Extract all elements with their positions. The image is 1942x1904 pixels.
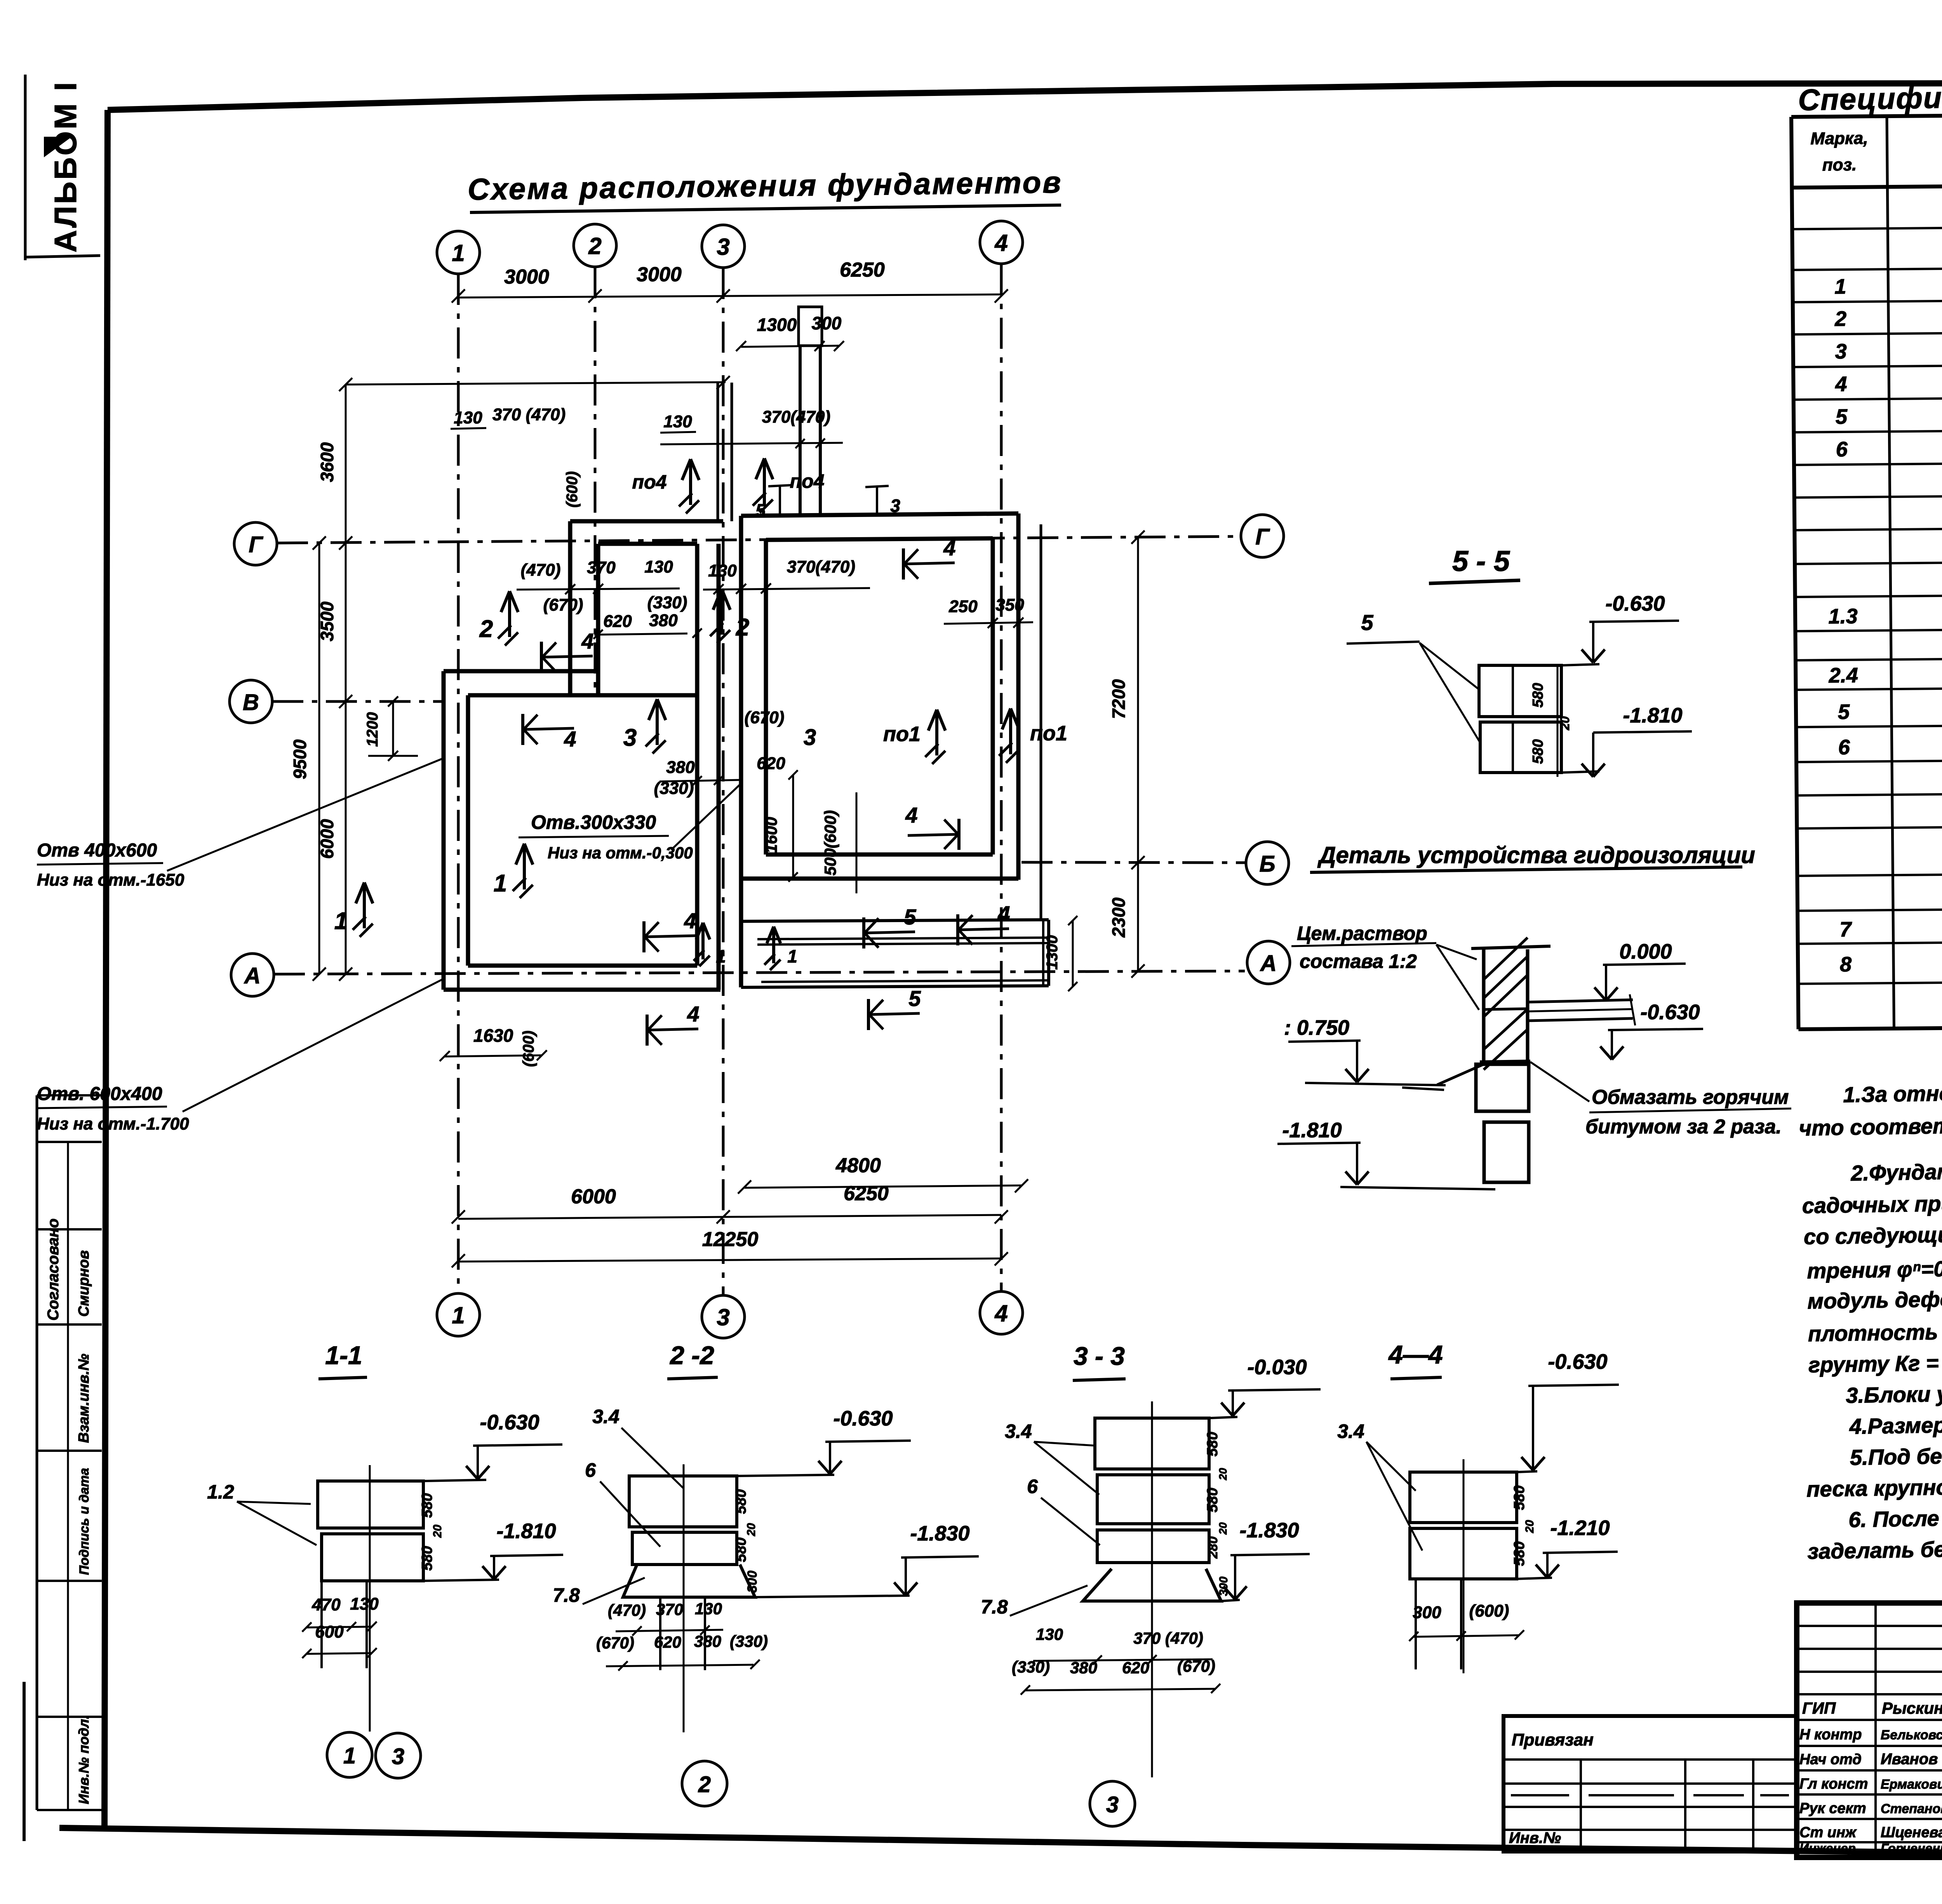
wall upper-left room top outer	[570, 519, 723, 524]
svg-text:В: В	[243, 690, 259, 715]
svg-text:130: 130	[350, 1594, 379, 1613]
section mark К4 below bottom wall	[646, 1015, 649, 1046]
svg-text:6: 6	[1836, 438, 1848, 461]
svg-text:6000: 6000	[571, 1185, 616, 1208]
section 3-3 level extension lines	[1209, 1417, 1237, 1418]
detail wall right edge	[1526, 949, 1530, 1061]
svg-text:5: 5	[1836, 405, 1848, 428]
dim line upper rooms left	[517, 588, 680, 590]
section 2-2 axis circle 2	[682, 1761, 727, 1806]
svg-text:битумом за 2 раза.: битумом за 2 раза.	[1585, 1116, 1782, 1138]
dimension line 3000 3000 6250	[458, 294, 1001, 298]
detail wall bottom joint	[1480, 1061, 1530, 1062]
album margin line vertical	[24, 75, 27, 260]
axis line 2 vertical	[594, 267, 597, 697]
svg-text:-0.630: -0.630	[1548, 1350, 1607, 1373]
section 1-1 axis circles 1 3	[369, 1669, 371, 1732]
svg-text:130: 130	[695, 1599, 722, 1618]
svg-text:2: 2	[698, 1772, 711, 1797]
album margin line horizontal	[25, 256, 100, 257]
detail footing bottom line	[1340, 1187, 1495, 1189]
svg-text:2.4: 2.4	[1829, 664, 1858, 687]
svg-text:600: 600	[315, 1622, 344, 1641]
axis circle В left	[230, 680, 272, 723]
svg-text:Рыскин: Рыскин	[1882, 1699, 1942, 1717]
wall stub above axis3 right line	[731, 383, 733, 521]
axis circle Г left	[234, 522, 277, 565]
leader обмазать to wall	[1530, 1062, 1589, 1102]
svg-text:4—4: 4—4	[1388, 1340, 1443, 1369]
dimension 1200 vertical	[392, 701, 394, 756]
dimension 4800	[745, 1185, 1021, 1188]
spec table grid	[1791, 117, 1798, 1029]
svg-text:А: А	[244, 963, 261, 989]
svg-text:поз.: поз.	[1822, 155, 1857, 175]
wall upper-right room bottom inner	[766, 853, 993, 857]
dim line under top labels	[660, 443, 843, 444]
svg-text:грунту Кг = 1.: грунту Кг = 1.	[1808, 1350, 1942, 1377]
axis circle Г right	[1241, 515, 1284, 557]
svg-text:300: 300	[745, 1571, 760, 1593]
svg-text:Схема расположения фундаментов: Схема расположения фундаментов	[468, 165, 1063, 207]
svg-text:1200: 1200	[364, 712, 381, 747]
chimney wall left	[799, 346, 802, 516]
svg-text:130: 130	[454, 408, 482, 427]
heading underline	[470, 205, 1061, 212]
svg-text:4: 4	[564, 727, 576, 751]
dimension 12250	[458, 1258, 1001, 1262]
svg-text:Привязан: Привязан	[1512, 1730, 1594, 1749]
wall upper-left room left outer	[568, 521, 573, 697]
section mark К5 appendix lower	[867, 999, 870, 1030]
section mark К4 upper-left	[540, 642, 543, 673]
section 3-3 block 2	[1097, 1475, 1209, 1524]
svg-text:5: 5	[904, 905, 916, 929]
dimension 1600 rotated	[792, 775, 794, 877]
dim line mid	[660, 780, 740, 781]
svg-text:3.4: 3.4	[592, 1406, 619, 1427]
svg-text:3.4: 3.4	[1005, 1420, 1032, 1442]
svg-text:Нач отд: Нач отд	[1799, 1751, 1862, 1768]
chimney cap	[799, 307, 822, 346]
svg-text:350: 350	[995, 595, 1024, 614]
section 2-2 block upper	[629, 1476, 737, 1527]
svg-text:1300: 1300	[757, 315, 797, 335]
dimension 1300 rotated appendix	[1072, 921, 1074, 987]
svg-text:по1: по1	[1030, 722, 1067, 745]
svg-text:7.8: 7.8	[553, 1584, 580, 1606]
svg-text:Обмазать горячим: Обмазать горячим	[1592, 1086, 1789, 1109]
svg-text:Согласовано: Согласовано	[45, 1218, 62, 1321]
section tick 3 top	[865, 486, 889, 487]
corner fold triangle	[44, 137, 72, 157]
svg-text:Степанова: Степанова	[1881, 1801, 1942, 1816]
section 4-4 centerline	[1463, 1459, 1465, 1673]
section 5-5 dim line right	[1557, 665, 1559, 777]
svg-text:130: 130	[644, 557, 673, 576]
wall lower-left room bottom inner	[468, 964, 697, 968]
axis circle 4 top	[980, 221, 1023, 264]
axis line А horizontal	[274, 971, 1245, 974]
wall appendix bottom inner	[761, 980, 1049, 982]
svg-text:-1.830: -1.830	[1239, 1519, 1299, 1542]
svg-text:130: 130	[663, 412, 692, 431]
svg-text:7200: 7200	[1108, 679, 1129, 719]
svg-text:300: 300	[1413, 1603, 1441, 1622]
svg-text:Ст инж: Ст инж	[1799, 1824, 1857, 1841]
appendix mark 1 arrow	[772, 927, 775, 963]
svg-text:2: 2	[479, 616, 493, 642]
dimension 1630	[445, 1055, 542, 1056]
svg-text:3 - 3: 3 - 3	[1074, 1342, 1125, 1370]
svg-text:-1.810: -1.810	[1282, 1119, 1342, 1142]
svg-text:3000: 3000	[504, 266, 549, 288]
svg-text:6250: 6250	[840, 259, 885, 281]
svg-text:(600): (600)	[520, 1030, 537, 1067]
svg-text:(330): (330)	[730, 1632, 768, 1650]
svg-text:АЛЬБОМ I: АЛЬБОМ I	[48, 80, 83, 252]
section 3-3 block 1	[1095, 1418, 1209, 1469]
mini table columns	[1580, 1760, 1582, 1852]
svg-text:1: 1	[787, 946, 797, 966]
svg-text:620: 620	[757, 754, 785, 773]
svg-text:130: 130	[1036, 1625, 1063, 1643]
axis circle 4 bottom	[980, 1291, 1023, 1334]
section 1-1 lower wall lines	[320, 1581, 323, 1668]
dimension 2300 vertical right	[1137, 863, 1139, 971]
section 2-2 level extension lines	[737, 1475, 834, 1476]
svg-text:3: 3	[890, 496, 900, 516]
left stamp column boxes	[36, 1095, 38, 1810]
svg-text:580: 580	[1511, 1541, 1528, 1566]
svg-text:Н контр: Н контр	[1799, 1726, 1862, 1743]
svg-text:1: 1	[1834, 275, 1846, 298]
axis circle А right	[1247, 941, 1290, 984]
svg-text:(470): (470)	[608, 1601, 646, 1619]
notes paragraph	[1798, 1070, 1942, 1564]
svg-text:380: 380	[666, 758, 695, 777]
svg-text:12250: 12250	[702, 1228, 759, 1251]
wall lower-left room top inner	[468, 693, 697, 698]
svg-text:Инв.№: Инв.№	[1509, 1829, 1561, 1847]
svg-text:2300: 2300	[1108, 897, 1129, 938]
title block signature rows	[1797, 1693, 1942, 1695]
svg-text:20: 20	[1217, 1522, 1229, 1535]
section mark К4 bottom-left with arrow 1	[642, 921, 646, 952]
svg-text:5: 5	[755, 500, 766, 520]
svg-text:250: 250	[948, 597, 978, 616]
svg-text:20: 20	[745, 1523, 758, 1537]
svg-text:ГИП: ГИП	[1802, 1699, 1836, 1717]
wall axis3 inner line	[695, 544, 700, 966]
svg-text:370(470): 370(470)	[762, 407, 830, 426]
svg-text:6: 6	[1027, 1476, 1038, 1497]
wall upper-right room top inner	[766, 538, 993, 540]
specification table	[1791, 110, 1942, 1029]
wall lower-left room top outer	[444, 669, 598, 674]
svg-text:3500: 3500	[317, 601, 337, 641]
section mark К4 right room top	[902, 548, 905, 580]
svg-text:3: 3	[804, 725, 816, 750]
section 5-5 block joints	[1512, 665, 1514, 717]
svg-text:580: 580	[1204, 1432, 1221, 1456]
dim line upper rooms right	[703, 588, 870, 590]
svg-text:300: 300	[1217, 1577, 1230, 1596]
axis circle 1 bottom	[437, 1293, 480, 1336]
svg-text:2: 2	[1834, 307, 1847, 331]
detail foundation block 1	[1476, 1064, 1529, 1111]
svg-text:-1.210: -1.210	[1550, 1516, 1610, 1540]
svg-text:-0.630: -0.630	[480, 1411, 539, 1434]
svg-text:1-1: 1-1	[325, 1341, 362, 1370]
svg-text:370: 370	[587, 558, 616, 577]
svg-text:Взам.инв.№: Взам.инв.№	[76, 1354, 92, 1443]
wall axis3 outer line	[717, 544, 721, 990]
section 1-1 block upper	[318, 1481, 423, 1528]
svg-text:Марка,: Марка,	[1810, 129, 1868, 148]
wall upper-right room left inner	[764, 540, 768, 855]
title block outer box	[1797, 1603, 1942, 1857]
svg-text:3600: 3600	[317, 442, 337, 482]
svg-text:4: 4	[994, 230, 1008, 256]
svg-text:20: 20	[1217, 1468, 1229, 1481]
svg-text:Бельковская: Бельковская	[1881, 1728, 1942, 1742]
svg-text:620: 620	[654, 1633, 681, 1651]
svg-text:4: 4	[687, 1002, 699, 1026]
svg-text:580: 580	[733, 1537, 749, 1562]
svg-text:3000: 3000	[637, 263, 682, 286]
title block columns left part	[1874, 1603, 1877, 1857]
svg-text:-1.830: -1.830	[910, 1522, 969, 1545]
svg-text:1630: 1630	[473, 1025, 513, 1046]
svg-text:3: 3	[717, 1304, 729, 1330]
axis circle А left	[231, 954, 274, 996]
svg-text:4: 4	[943, 536, 955, 560]
svg-text:Подпись и дата: Подпись и дата	[77, 1468, 92, 1575]
wall appendix strip line 1	[757, 938, 1049, 939]
svg-text:8: 8	[1840, 953, 1852, 976]
svg-text:1.2: 1.2	[207, 1481, 234, 1503]
dimension 6000 vertical	[345, 701, 347, 974]
svg-text:370 (470): 370 (470)	[1133, 1629, 1203, 1647]
section 2-2 lower wall lines	[659, 1597, 661, 1670]
section 3-3 block 3	[1097, 1530, 1209, 1563]
axis circle Б right	[1246, 842, 1289, 884]
wall upper-right room right inner	[991, 538, 995, 855]
leader цем раствор to wall	[1436, 945, 1477, 959]
svg-text:380: 380	[1070, 1659, 1097, 1677]
svg-text:Рук сект: Рук сект	[1799, 1800, 1866, 1817]
section 4-4 level extension lines	[1517, 1471, 1537, 1472]
svg-text:4: 4	[994, 1300, 1008, 1326]
svg-text:(670): (670)	[1177, 1657, 1215, 1675]
svg-text:Г: Г	[249, 532, 263, 557]
svg-text:1: 1	[716, 946, 726, 966]
axis circle 2 top	[574, 224, 616, 267]
svg-text:6: 6	[1838, 736, 1850, 759]
axis line Г horizontal	[277, 536, 1241, 543]
wall upper-right room bottom outer	[741, 877, 1018, 881]
svg-text:4: 4	[684, 908, 696, 933]
section 3-3 centerline	[1151, 1401, 1153, 1777]
wall appendix strip line 2	[757, 943, 1049, 945]
svg-text:500(600): 500(600)	[821, 810, 839, 875]
section 4-4 block lower	[1410, 1528, 1517, 1579]
svg-text:Низ на отм.-1650: Низ на отм.-1650	[37, 870, 184, 889]
svg-text:(600): (600)	[1469, 1601, 1509, 1620]
svg-text:580: 580	[1204, 1488, 1221, 1512]
svg-text:1300: 1300	[1044, 935, 1061, 970]
wall lower-left room left inner	[466, 695, 470, 966]
svg-text:1600: 1600	[762, 817, 780, 853]
section 1-1 block lower	[322, 1534, 423, 1581]
svg-text:по1: по1	[883, 722, 921, 746]
svg-text:620: 620	[603, 612, 632, 631]
svg-text:1.3: 1.3	[1828, 605, 1858, 628]
mini table box	[1503, 1716, 1797, 1852]
svg-text:580: 580	[1511, 1485, 1528, 1510]
dim line 620 380	[594, 634, 687, 635]
svg-text:Инженер: Инженер	[1799, 1841, 1856, 1855]
svg-text:Горчененко: Горчененко	[1881, 1841, 1942, 1855]
svg-text:3: 3	[1835, 340, 1847, 363]
dimension 3600 vertical	[345, 385, 347, 543]
svg-text:Б: Б	[1259, 851, 1275, 877]
left stamp artifact line	[23, 1682, 26, 1841]
svg-text:Гл конст: Гл конст	[1799, 1776, 1868, 1792]
label по4 right with arrow	[763, 458, 766, 504]
svg-text:1: 1	[334, 908, 348, 935]
wall stub above axis3 left line	[717, 383, 719, 521]
axis line Б horizontal	[1021, 862, 1246, 863]
axis circle 3 bottom	[702, 1295, 745, 1338]
svg-text:-1.810: -1.810	[496, 1519, 556, 1543]
svg-text:370(470): 370(470)	[787, 557, 855, 576]
section mark К5 appendix	[862, 917, 865, 949]
wall appendix bottom outer	[741, 986, 1049, 987]
svg-text:20: 20	[1558, 716, 1572, 731]
section 4-4 block upper	[1410, 1472, 1517, 1523]
section 3-3 axis circle 3	[1090, 1781, 1135, 1826]
svg-text:370 (470): 370 (470)	[492, 405, 566, 424]
svg-text:Низ на отм.-0,300: Низ на отм.-0,300	[548, 844, 693, 862]
detail wall left edge	[1482, 949, 1486, 1061]
section mark К4 right room bottom	[957, 819, 961, 850]
svg-text:4: 4	[997, 902, 1010, 926]
section 2-2 block lower	[632, 1532, 737, 1565]
svg-text:4: 4	[581, 629, 593, 653]
svg-text:20: 20	[1523, 1520, 1536, 1533]
svg-text:состава 1:2: состава 1:2	[1300, 950, 1417, 972]
section 5-5 level extension lines	[1561, 664, 1599, 665]
svg-text:4800: 4800	[835, 1154, 881, 1177]
svg-text:620: 620	[1122, 1659, 1149, 1677]
wall upper-right room left outer	[739, 516, 743, 987]
detail wall top cap line	[1471, 946, 1550, 949]
svg-text:(670): (670)	[543, 595, 583, 614]
wall appendix right inner	[1042, 920, 1044, 986]
svg-text:по4: по4	[790, 470, 825, 492]
section 3-3 footing plate trapezoid	[1083, 1569, 1221, 1601]
svg-text:300: 300	[812, 313, 842, 333]
label 2 with arrow right	[720, 589, 723, 635]
svg-text:Отв. 600х400: Отв. 600х400	[37, 1084, 162, 1104]
svg-text:-0.030: -0.030	[1247, 1356, 1307, 1379]
svg-text:Иванов: Иванов	[1881, 1751, 1938, 1768]
svg-text:Смирнов: Смирнов	[76, 1250, 92, 1317]
svg-text:5: 5	[908, 986, 921, 1011]
section tick 5 top	[768, 485, 792, 486]
mini table dashes	[1511, 1794, 1569, 1796]
svg-text:Отв 400х600: Отв 400х600	[37, 840, 157, 861]
detail wall hatch joint	[1484, 1009, 1528, 1009]
svg-text:(600): (600)	[564, 471, 581, 507]
detail wall hatching upper block	[1484, 938, 1528, 980]
leader to opening	[671, 785, 740, 850]
wall appendix right outer	[1047, 920, 1050, 986]
wall appendix top	[741, 920, 1049, 921]
svg-text:Отв.300х330: Отв.300х330	[531, 811, 656, 833]
section 2-2 centerline	[683, 1464, 685, 1732]
sheet border frame	[108, 82, 1942, 110]
svg-text:-0.630: -0.630	[1640, 1001, 1700, 1024]
wall upper-left room left inner	[596, 544, 600, 697]
svg-text:(670): (670)	[596, 1634, 634, 1652]
svg-text:130: 130	[708, 561, 737, 580]
svg-text:(670): (670)	[745, 708, 785, 727]
svg-text:7.8: 7.8	[981, 1596, 1008, 1618]
svg-text:580: 580	[733, 1489, 749, 1514]
svg-text:1: 1	[343, 1743, 356, 1768]
svg-text:380: 380	[694, 1632, 721, 1650]
section 1-1 level extension lines	[423, 1480, 486, 1481]
detail blind-area slope	[1437, 1064, 1484, 1085]
svg-text:(330): (330)	[1012, 1658, 1050, 1676]
svg-text:20: 20	[431, 1525, 444, 1538]
spec table title	[1798, 69, 1942, 117]
dimension 500(600) rotated	[856, 792, 858, 893]
dimension line 1300 300	[741, 346, 839, 347]
svg-text:3: 3	[392, 1744, 404, 1769]
svg-text:4: 4	[1835, 372, 1847, 396]
leader 400x600	[167, 758, 444, 871]
svg-text:6250: 6250	[844, 1182, 889, 1205]
svg-text:1: 1	[494, 870, 507, 897]
svg-text:580: 580	[1530, 683, 1546, 707]
svg-text:0.000: 0.000	[1619, 940, 1672, 963]
svg-text:А: А	[1260, 951, 1277, 976]
svg-text:-1.810: -1.810	[1623, 704, 1682, 727]
svg-text:3: 3	[717, 234, 729, 260]
svg-text:Инв.№ подл.: Инв.№ подл.	[76, 1715, 92, 1804]
wall lower-left room left outer	[442, 671, 446, 990]
detail foundation block 2	[1484, 1122, 1529, 1182]
svg-text:2: 2	[588, 233, 601, 259]
svg-text:4: 4	[905, 803, 917, 827]
axis line В horizontal	[272, 700, 445, 703]
section 1-1 centerline	[369, 1465, 371, 1669]
axis line 4 vertical	[1000, 264, 1003, 1291]
detail slab end break mark	[1630, 994, 1635, 1025]
svg-text:(330): (330)	[647, 593, 687, 612]
svg-text:6: 6	[585, 1459, 596, 1481]
svg-text:7: 7	[1839, 918, 1852, 941]
detail floor slab lines	[1528, 1000, 1633, 1002]
svg-text:470: 470	[311, 1595, 341, 1614]
detail wall hatching lower block	[1484, 1009, 1528, 1049]
dimension 3500 vertical	[345, 543, 347, 701]
svg-text:-0.630: -0.630	[1605, 592, 1665, 615]
